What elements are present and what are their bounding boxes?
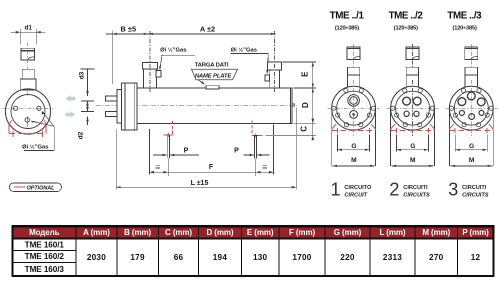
- svg-text:179: 179: [130, 253, 145, 262]
- dimension E: [301, 62, 313, 88]
- optional drain elbow left (red): [164, 121, 173, 137]
- extension line L right: [295, 108, 297, 190]
- svg-text:(120÷385): (120÷385): [335, 26, 359, 32]
- vertical centerline lower (TME ../2): [412, 80, 414, 136]
- extension lines right side: [266, 62, 317, 136]
- flow arrow out (gray): [66, 111, 76, 118]
- fitting (TME ../2): [406, 47, 419, 60]
- svg-text:G: G: [469, 143, 474, 150]
- svg-text:TME ../2: TME ../2: [389, 11, 424, 22]
- label Oi 1/2 Gas (left port): [159, 47, 195, 71]
- neck connection (left detail view): [20, 69, 36, 90]
- left port N1 body: [144, 69, 157, 88]
- vertical centerline upper (TME ../2): [412, 44, 414, 68]
- dimension d1: [11, 24, 46, 44]
- svg-text:130: 130: [253, 253, 268, 262]
- svg-text:270: 270: [429, 253, 444, 262]
- end nub: [292, 104, 295, 106]
- optional drain elbow right (red): [252, 121, 263, 138]
- svg-text:CIRCUIT: CIRCUIT: [344, 192, 367, 198]
- dimension B +/-5: [106, 25, 148, 85]
- svg-text:CIRCUITO: CIRCUITO: [344, 185, 372, 191]
- right port connector square: [265, 75, 269, 81]
- svg-text:B (mm): B (mm): [124, 228, 151, 237]
- lower hole (view 1): [350, 111, 358, 119]
- svg-text:(120÷385): (120÷385): [453, 26, 477, 32]
- equal-spacing mark left: [155, 165, 160, 168]
- shell sides below flange (TME ../2): [391, 108, 435, 166]
- svg-text:Øi ½”Gas: Øi ½”Gas: [22, 143, 48, 150]
- right port N2 body: [270, 70, 280, 88]
- extension line L left: [115, 130, 117, 190]
- leader lines to gas holes: [31, 111, 54, 150]
- vertical centerline upper (TME ../1): [353, 44, 355, 68]
- svg-text:D: D: [301, 102, 310, 108]
- circuit count label 1: [330, 180, 371, 200]
- circuit holes (view 3): [458, 92, 485, 119]
- fitting (TME ../1): [347, 47, 360, 60]
- end view TME ../2 title: [389, 11, 424, 32]
- svg-text:L (mm): L (mm): [380, 228, 406, 237]
- body centerline: [96, 105, 298, 107]
- flow arrow in (gray): [66, 95, 76, 102]
- svg-text:G: G: [351, 143, 356, 150]
- optional connections (red, TME ../1): [332, 124, 375, 133]
- svg-text:NAME PLATE: NAME PLATE: [195, 73, 233, 79]
- drain pipe left: [167, 135, 169, 176]
- vertical centerline lower (TME ../1): [353, 80, 355, 136]
- right port N2 cap: [268, 62, 282, 70]
- svg-text:220: 220: [340, 253, 355, 262]
- flange circle (left detail view): [5, 89, 50, 134]
- svg-text:d3: d3: [79, 71, 86, 79]
- tube-sheet flange: [122, 83, 137, 130]
- bolt hole right: [37, 106, 41, 110]
- label Oi 1/2 Gas (right port): [231, 47, 269, 75]
- lower water stub d2: [106, 112, 117, 117]
- table values: [87, 253, 481, 262]
- drain pipe right: [255, 136, 257, 177]
- neck (TME ../2): [406, 67, 418, 89]
- svg-text:A (mm): A (mm): [83, 228, 110, 237]
- dimension G (TME ../1): [338, 135, 370, 152]
- centerline (left view vertical): [27, 43, 29, 97]
- svg-text:M: M: [410, 157, 416, 164]
- dimension P left: [153, 148, 199, 157]
- svg-text:Øi ½”Gas: Øi ½”Gas: [160, 47, 186, 54]
- svg-text:F (mm): F (mm): [289, 228, 316, 237]
- svg-text:P: P: [184, 148, 189, 155]
- svg-text:2: 2: [389, 180, 399, 200]
- svg-text:1: 1: [330, 180, 340, 200]
- dimension P right: [234, 148, 269, 157]
- inlet pipe fitting (left detail view): [21, 48, 34, 60]
- svg-text:Øi ½”Gas: Øi ½”Gas: [231, 47, 257, 54]
- svg-text:M (mm): M (mm): [422, 228, 450, 237]
- svg-text:L ±15: L ±15: [191, 180, 209, 187]
- optional connections (red, TME ../3): [450, 124, 493, 133]
- svg-text:CIRCUITS: CIRCUITS: [403, 192, 430, 198]
- svg-text:TME ../3: TME ../3: [447, 11, 482, 22]
- optional connections (red, TME ../2): [391, 124, 434, 133]
- svg-text:CIRCUITI: CIRCUITI: [462, 185, 487, 191]
- neck (TME ../1): [347, 67, 359, 89]
- svg-text:12: 12: [471, 253, 481, 262]
- flange circle (TME ../3): [449, 86, 493, 130]
- horizontal centerline (TME ../1): [328, 107, 380, 109]
- shell sides below flange (TME ../1): [332, 108, 376, 166]
- dimension d2: [78, 105, 95, 139]
- dimension table: [12, 226, 493, 276]
- TARGA DATI / NAME PLATE callout: [192, 63, 238, 85]
- shell sides below flange (TME ../3): [449, 108, 493, 166]
- svg-text:194: 194: [213, 253, 228, 262]
- svg-text:G (mm): G (mm): [334, 228, 362, 237]
- centerline (left view horizontal): [3, 107, 53, 109]
- fitting (TME ../3): [465, 47, 478, 60]
- circuit hole ring (view 1): [348, 95, 360, 107]
- shell end cap line: [290, 88, 292, 123]
- svg-text:TARGA DATI: TARGA DATI: [195, 63, 229, 69]
- name plate on shell: [206, 86, 219, 89]
- svg-text:C: C: [300, 126, 309, 132]
- svg-text:TME 160/3: TME 160/3: [25, 265, 65, 274]
- inner circle (TME ../2): [396, 91, 430, 125]
- dimension d3: [79, 69, 95, 108]
- dimension M (TME ../3): [450, 157, 492, 166]
- svg-text:TME 160/1: TME 160/1: [25, 240, 65, 249]
- upper water stub d3: [106, 96, 117, 101]
- svg-text:D (mm): D (mm): [206, 228, 233, 237]
- bolt hole left: [14, 106, 18, 110]
- dimension D: [301, 88, 313, 123]
- svg-text:M: M: [351, 157, 357, 164]
- dimension M (TME ../2): [392, 157, 434, 166]
- dimension M (TME ../1): [333, 157, 375, 166]
- bolt holes (TME ../3): [449, 88, 493, 126]
- end view TME ../1 title: [330, 11, 365, 32]
- circuit count label 2: [389, 180, 430, 200]
- mounting step: [117, 90, 122, 123]
- svg-text:d1: d1: [24, 24, 32, 31]
- svg-text:E (mm): E (mm): [247, 228, 274, 237]
- svg-text:2313: 2313: [383, 253, 402, 262]
- svg-text:CIRCUITS: CIRCUITS: [462, 192, 489, 198]
- label Oi 1/2 Gas (left view): [22, 143, 54, 150]
- svg-text:3: 3: [448, 180, 458, 200]
- end view TME ../3 title: [447, 11, 482, 32]
- svg-text:B ±5: B ±5: [121, 25, 137, 34]
- table model rows: [25, 240, 65, 273]
- circuit holes (view 2): [403, 97, 421, 116]
- svg-text:CIRCUITI: CIRCUITI: [403, 185, 428, 191]
- optional connections outline (red, left view): [9, 120, 46, 136]
- svg-text:(120÷385): (120÷385): [394, 26, 418, 32]
- right port centerline: [274, 31, 276, 92]
- dimension F: [149, 164, 273, 174]
- inner circle (left detail view): [11, 95, 45, 129]
- bottom gas connection hole: [25, 116, 29, 127]
- OPTIONAL legend pill: [9, 183, 61, 192]
- neck (TME ../3): [465, 67, 477, 89]
- horizontal centerline (TME ../2): [387, 107, 439, 109]
- svg-text:G: G: [410, 143, 415, 150]
- extension line tube sheet right: [273, 125, 275, 175]
- svg-text:d2: d2: [78, 131, 85, 139]
- svg-text:TME ../1: TME ../1: [330, 11, 365, 22]
- inner circle (TME ../1): [337, 91, 371, 125]
- svg-text:2030: 2030: [87, 253, 106, 262]
- svg-text:C (mm): C (mm): [165, 228, 192, 237]
- svg-text:A ±2: A ±2: [200, 25, 215, 34]
- horizontal centerline (TME ../3): [445, 107, 497, 109]
- extension line tube sheet left: [148, 129, 150, 174]
- svg-text:TME 160/2: TME 160/2: [25, 252, 65, 261]
- left port N1 cap: [142, 63, 157, 70]
- flange circle (TME ../1): [332, 86, 376, 130]
- dimension G (TME ../2): [396, 135, 428, 152]
- svg-text:P: P: [234, 148, 239, 155]
- inner circle (TME ../3): [454, 91, 488, 125]
- svg-text:F: F: [209, 164, 214, 171]
- vertical centerline lower (TME ../3): [470, 80, 472, 136]
- svg-text:M: M: [469, 157, 475, 164]
- svg-text:66: 66: [174, 253, 184, 262]
- flange circle (TME ../2): [391, 86, 435, 130]
- svg-text:OPTIONAL: OPTIONAL: [27, 186, 55, 192]
- bolt holes (TME ../1): [332, 88, 376, 126]
- dimension A +/-2: [148, 25, 275, 34]
- vertical centerline upper (TME ../3): [470, 44, 472, 68]
- svg-text:Модель: Модель: [29, 228, 60, 237]
- dimension G (TME ../3): [455, 135, 487, 152]
- equal-spacing mark right: [262, 165, 267, 168]
- svg-text:E: E: [301, 71, 310, 77]
- table header row: [29, 228, 489, 237]
- left port connector square: [156, 71, 161, 78]
- circuit count label 3: [448, 180, 489, 200]
- svg-text:1700: 1700: [292, 253, 311, 262]
- left port centerline: [149, 31, 151, 92]
- dimension L +/-15: [116, 180, 296, 187]
- svg-text:P (mm): P (mm): [462, 228, 489, 237]
- bolt holes (TME ../2): [391, 88, 435, 126]
- dimension C: [300, 119, 315, 140]
- shell body: [137, 88, 292, 123]
